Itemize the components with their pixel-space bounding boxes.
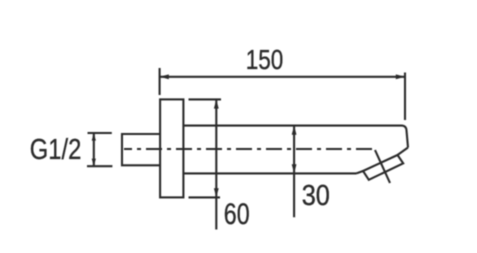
angled outlet nozzle: [363, 155, 403, 180]
dimension G1/2: top tick: [88, 132, 112, 134]
arm top edge with rounded right corner and right end edge: [183, 126, 408, 148]
dimension 30: bottom arrow: [292, 164, 297, 173]
dimension 150: right arrow: [396, 74, 405, 79]
connector bottom edge to outlet: [357, 171, 364, 173]
dimension 60: top extension line: [189, 98, 222, 100]
svg-text:60: 60: [224, 198, 250, 231]
dimension 60: top arrow: [214, 99, 219, 108]
svg-text:G1/2: G1/2: [30, 134, 82, 166]
thread stub (G1/2 end): [122, 134, 160, 165]
dimension G1/2: top arrow: [92, 133, 96, 141]
dimension 150: dimension line: [160, 76, 405, 78]
arm bottom edge: [183, 172, 356, 174]
dimension 150: right extension line: [404, 73, 406, 121]
dimension G1/2: bottom tick: [87, 165, 112, 167]
dimension 60: bottom arrow: [214, 188, 219, 197]
centerline (dash-dot): [124, 148, 372, 150]
dimension 60: dimension line: [215, 99, 217, 229]
dimension 60: bottom extension line: [189, 196, 221, 198]
dimension 30: top arrow: [292, 126, 297, 135]
dimension G1/2: bottom arrow: [92, 159, 96, 167]
svg-text:30: 30: [302, 180, 330, 212]
chamfer cut edge (top): [398, 148, 409, 156]
wall flange: [160, 99, 183, 197]
svg-text:150: 150: [246, 44, 284, 75]
dimension G1/2: dimension line: [93, 133, 95, 166]
dimension 150: left arrow: [160, 74, 169, 79]
dimension 30: dimension line: [293, 126, 295, 218]
dimension 150: left extension line: [159, 68, 161, 95]
joint line across nozzle: [375, 150, 390, 183]
